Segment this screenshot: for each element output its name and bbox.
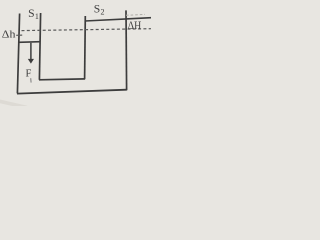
paper background xyxy=(0,0,151,106)
small ink artifact below F xyxy=(30,78,32,82)
dashed initial liquid level line xyxy=(22,29,152,31)
force arrow shaft xyxy=(30,43,32,60)
force arrow head xyxy=(28,59,34,64)
piston S1 top surface xyxy=(19,41,41,44)
svg-text:2: 2 xyxy=(101,8,105,17)
inner wall: right side of narrow tube xyxy=(39,13,40,80)
svg-text:S: S xyxy=(28,7,34,20)
faint ghost dashes above ΔH xyxy=(126,13,145,16)
svg-text:F: F xyxy=(26,69,32,80)
paper shading bottom-left smudge xyxy=(0,101,27,108)
inner bottom of connecting channel xyxy=(39,78,85,81)
vessel outer bottom xyxy=(17,90,127,94)
piston S2 top surface (extended to right edge) xyxy=(85,18,151,21)
vessel outer right wall xyxy=(125,10,128,90)
vessel outer left wall xyxy=(17,14,19,94)
svg-text:S: S xyxy=(94,3,100,16)
svg-text:ΔH: ΔH xyxy=(128,20,141,32)
inner wall: left side of wide tube xyxy=(84,16,87,79)
svg-text:Δh: Δh xyxy=(2,29,16,40)
short dash tick beside Δh label xyxy=(16,34,22,36)
svg-text:1: 1 xyxy=(35,12,39,21)
